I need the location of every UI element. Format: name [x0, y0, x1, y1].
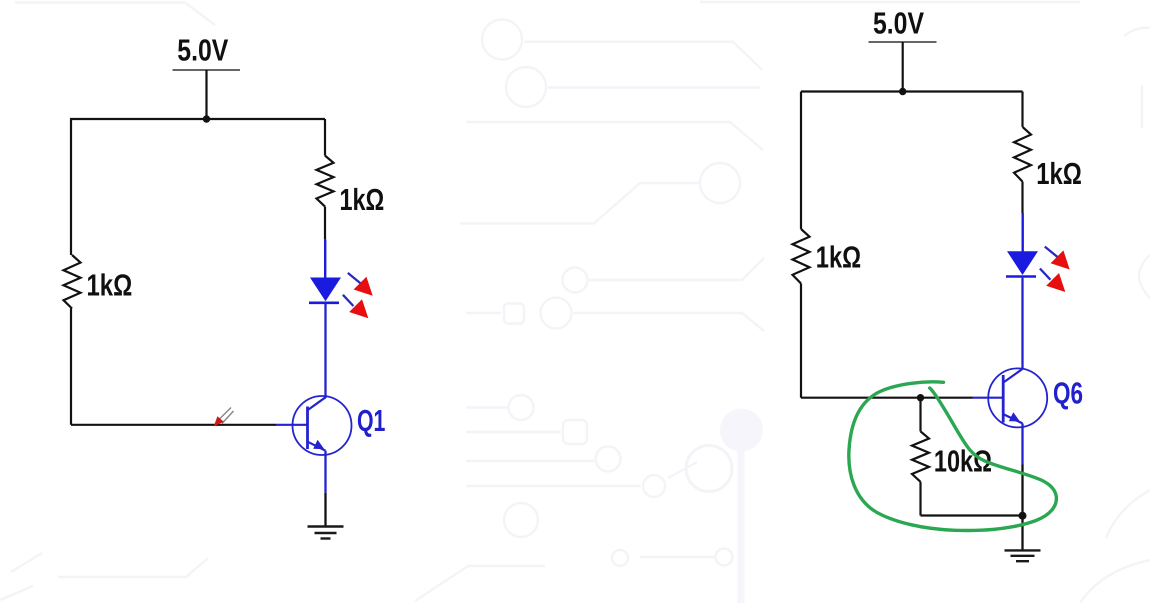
node: junction dot on top rail (left) [203, 115, 210, 122]
resistor R5 10k [912, 431, 929, 481]
wire: emitter to ground (black part) [324, 493, 326, 526]
transistor Q6 emitter arrow [1009, 412, 1020, 421]
wire: Q6 emitter down (blue part) [1021, 423, 1023, 464]
LED D2 light arrow 2 shaft [1040, 269, 1051, 280]
svg-text:1kΩ: 1kΩ [87, 268, 133, 302]
svg-text:Q1: Q1 [357, 404, 385, 438]
LED D1 triangle [310, 278, 341, 302]
node: junction dot at 10k tap [917, 394, 924, 401]
transistor Q1 collector lead [308, 397, 326, 410]
transistor Q1 emitter lead [308, 442, 326, 451]
ground symbol (right circuit) [1005, 550, 1041, 561]
LED D2 light arrow 1 shaft [1045, 247, 1058, 258]
wire: supply stub (right) [902, 42, 904, 92]
probe cursor annotation [214, 408, 234, 427]
resistor R3 1k (right circuit, left branch) [793, 229, 810, 284]
svg-text:Q6: Q6 [1053, 377, 1083, 411]
svg-text:5.0V: 5.0V [177, 34, 229, 68]
transistor Q1 circle [293, 396, 352, 455]
wire: Q1 base lead (blue) [276, 424, 308, 426]
wire: left branch down to R1 [70, 119, 72, 255]
transistor Q6 circle [988, 368, 1047, 427]
LED D2 light arrow 1 head [1051, 250, 1070, 269]
wire: right branch from top rail to R2 [324, 119, 326, 156]
wire: R5 to bottom wire [919, 482, 921, 516]
LED D1 light arrow 1 head [354, 277, 373, 296]
wire: R2 to LED anode (black part) [324, 207, 326, 240]
wire: LED cathode to Q1 collector (blue) [324, 304, 326, 396]
wire: top rail (right circuit) [801, 90, 1023, 92]
wire: R1 to base wire [70, 309, 72, 425]
transistor Q1 base bar [306, 407, 309, 450]
resistor R1 1k (left circuit, left branch) [64, 255, 81, 309]
LED D1 cathode bar [309, 301, 339, 304]
transistor Q6 collector lead [1004, 369, 1023, 382]
wire: emitter to bottom node (black part) [1021, 465, 1023, 516]
wire: Q1 emitter down (blue part) [324, 451, 326, 493]
LED D1 light arrow 2 shaft [343, 295, 354, 306]
svg-text:1kΩ: 1kΩ [816, 241, 861, 275]
transistor Q6 emitter lead [1004, 414, 1023, 423]
wire: top rail (left circuit) [70, 118, 325, 120]
resistor R4 1k (right circuit, right branch) [1014, 127, 1031, 182]
ground symbol (left circuit) [308, 527, 344, 539]
wire: LED D2 anode lead (blue) [1022, 213, 1024, 252]
svg-text:1kΩ: 1kΩ [340, 183, 385, 217]
LED D2 triangle [1007, 251, 1038, 275]
wire: supply stub (left) [205, 70, 207, 119]
wire: R3 down to base rail [800, 284, 802, 398]
LED D2 light arrow 2 head [1046, 273, 1065, 292]
wire: 10k tap down to R5 [919, 398, 921, 432]
wire: bottom horizontal to emitter node [921, 514, 1023, 516]
LED D2 cathode bar [1006, 275, 1036, 278]
wire: Q6 base lead (blue) [973, 397, 1004, 399]
wire: LED anode lead (blue) [324, 239, 326, 278]
node: junction dot on top rail (right) [899, 88, 906, 95]
node: junction dot at emitter/ground [1019, 512, 1027, 520]
green freehand annotation loop around R5 [849, 382, 1057, 531]
LED D1 light arrow 1 shaft [348, 273, 361, 284]
power supply 5.0V (left) bar symbol [173, 69, 241, 71]
wire: top rail to R4 [1021, 92, 1023, 127]
svg-text:1kΩ: 1kΩ [1036, 157, 1082, 191]
wire: R4 to LED anode (black part) [1021, 182, 1023, 213]
LED D1 light arrow 2 head [349, 299, 368, 318]
power supply 5.0V (right) bar symbol [869, 41, 937, 43]
resistor R2 1k (left circuit, right branch) [317, 156, 334, 207]
svg-text:5.0V: 5.0V [873, 6, 925, 40]
wire: left branch down to R3 [800, 92, 802, 230]
wire: node to ground [1021, 516, 1023, 551]
wire: base rail horizontal (right circuit) [801, 397, 973, 399]
transistor Q6 base bar [1002, 375, 1005, 423]
transistor Q1 emitter arrow [313, 440, 324, 449]
wire: LED D2 cathode to Q6 collector (blue) [1021, 278, 1023, 369]
wire: base wire horizontal (left circuit) [71, 424, 276, 426]
